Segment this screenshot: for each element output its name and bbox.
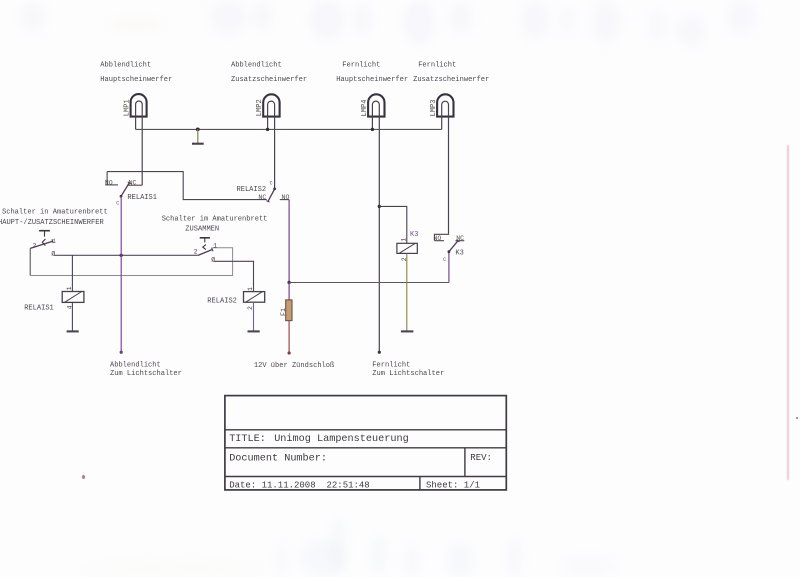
svg-text:Hauptscheinwerfer: Hauptscheinwerfer xyxy=(336,76,408,84)
svg-text:C: C xyxy=(116,201,119,207)
junction LMP4 leg to K3 coil xyxy=(378,205,381,208)
svg-text:Sheet: 1/1: Sheet: 1/1 xyxy=(426,480,480,490)
contact arm RELAIS1 xyxy=(121,183,129,197)
label Fernlicht Zusatzscheinwerfer xyxy=(413,62,489,84)
svg-text:LMP3: LMP3 xyxy=(430,99,438,116)
svg-text:Ø: Ø xyxy=(51,250,55,257)
svg-text:REV:: REV: xyxy=(470,453,492,463)
wire NC stub xyxy=(456,240,465,242)
svg-text:Fernlicht: Fernlicht xyxy=(418,62,456,70)
wire S2 pole to RELAIS2 coil xyxy=(214,261,254,291)
svg-text:RELAIS1: RELAIS1 xyxy=(24,304,54,312)
svg-text:Abblendlicht: Abblendlicht xyxy=(100,62,151,70)
svg-text:2: 2 xyxy=(194,249,198,256)
svg-text:RELAIS2: RELAIS2 xyxy=(207,297,237,305)
svg-text:LMP4: LMP4 xyxy=(361,99,369,116)
wire S1 pole to RELAIS1 coil xyxy=(71,255,73,291)
contact arm RELAIS2 xyxy=(268,189,275,202)
junction C net xyxy=(120,254,123,257)
wire K3 coil to ground xyxy=(406,253,408,331)
switch S2 ZUSAMMEN xyxy=(194,238,218,264)
relay coil RELAIS1 xyxy=(24,286,84,312)
svg-text:Abblendlicht: Abblendlicht xyxy=(231,62,282,70)
node 12V terminal xyxy=(288,351,291,354)
svg-text:LMP1: LMP1 xyxy=(123,99,131,116)
contact arm S2 xyxy=(198,250,212,256)
wire NO stub xyxy=(435,240,445,242)
node Abblendlicht terminal xyxy=(120,351,123,354)
wire S1 pin2 to S2 pin1 (long light line) xyxy=(30,248,232,276)
wire K3 C riser xyxy=(448,252,450,283)
svg-text:Date: 11.11.2008: Date: 11.11.2008 xyxy=(229,480,315,490)
svg-text:K3: K3 xyxy=(455,250,463,258)
wire NO stub xyxy=(280,199,289,201)
junction bus LMP4 xyxy=(371,128,374,131)
svg-text:TITLE:: TITLE: xyxy=(229,434,266,445)
node Fernlicht terminal xyxy=(378,351,381,354)
svg-text:RELAIS1: RELAIS1 xyxy=(127,194,157,202)
junction bus ground tap xyxy=(196,127,200,131)
svg-text:22:51:48: 22:51:48 xyxy=(327,480,370,490)
switch S1 label xyxy=(0,209,108,227)
svg-text:12V über Zündschloß: 12V über Zündschloß xyxy=(254,362,335,370)
wire RELAIS1 coil to ground xyxy=(71,302,73,331)
wire S1 pin2 down xyxy=(29,248,31,275)
label Abblendlicht Zusatzscheinwerfer xyxy=(231,62,307,84)
ground RELAIS2 xyxy=(248,330,260,332)
svg-text:Hauptscheinwerfer: Hauptscheinwerfer xyxy=(100,76,172,84)
junction bus LMP2 xyxy=(266,128,269,131)
svg-text:F1: F1 xyxy=(280,308,287,316)
title block frame xyxy=(225,396,506,490)
wire S1 pole line y255 xyxy=(54,254,198,256)
svg-text:Fernlicht: Fernlicht xyxy=(372,361,410,369)
svg-text:Zum Lichtschalter: Zum Lichtschalter xyxy=(110,370,182,378)
lamp LMP4 xyxy=(361,94,385,352)
wire RELAIS1 C vertical (purple) xyxy=(120,196,122,352)
relay coil RELAIS2 xyxy=(207,287,264,310)
label Fernlicht Zum Lichtschalter xyxy=(372,361,444,378)
svg-text:1: 1 xyxy=(247,287,254,291)
lamp LMP1 xyxy=(123,94,146,185)
relay coil K3 xyxy=(397,231,419,261)
fuse F1 xyxy=(280,300,292,321)
wire RELAIS1 NO to RELAIS2 NC xyxy=(107,172,267,200)
svg-text:Zusatzscheinwerfer: Zusatzscheinwerfer xyxy=(413,76,489,84)
svg-text:1: 1 xyxy=(66,286,73,290)
ground K3 xyxy=(401,330,414,332)
svg-text:Fernlicht: Fernlicht xyxy=(342,62,380,70)
label Fernlicht Hauptscheinwerfer xyxy=(336,62,408,84)
svg-text:Abblendlicht: Abblendlicht xyxy=(110,361,161,369)
svg-text:Schalter im Amaturenbrett: Schalter im Amaturenbrett xyxy=(162,216,268,224)
svg-text:ZUSAMMEN: ZUSAMMEN xyxy=(185,225,219,233)
svg-text:Unimog Lampensteuerung: Unimog Lampensteuerung xyxy=(274,433,409,445)
wire RELAIS2 coil to ground xyxy=(253,302,255,331)
wire NC stub xyxy=(128,184,142,186)
wire fuse node to K3 contact C xyxy=(289,282,449,284)
svg-text:Document Number:: Document Number: xyxy=(229,452,327,464)
contact arm S1 xyxy=(30,241,52,248)
wire fuse node to F1 xyxy=(288,283,290,301)
svg-text:K3: K3 xyxy=(410,231,418,239)
ground GND top xyxy=(192,129,204,143)
svg-text:Schalter in Amaturenbrett: Schalter in Amaturenbrett xyxy=(2,209,108,217)
wire lamp bus xyxy=(136,128,442,130)
switch S2 label xyxy=(162,216,268,234)
svg-text:Zum Lichtschalter: Zum Lichtschalter xyxy=(372,370,444,378)
svg-text:NC: NC xyxy=(258,194,266,201)
wire NO riser xyxy=(106,172,108,185)
ground RELAIS1 xyxy=(67,330,79,332)
svg-text:1: 1 xyxy=(401,238,408,242)
svg-text:C: C xyxy=(443,257,446,263)
wire RELAIS2 NO down to fuse node xyxy=(288,200,290,283)
relay contact RELAIS2 xyxy=(237,181,290,203)
svg-text:C: C xyxy=(270,181,273,187)
svg-text:Ø: Ø xyxy=(211,256,215,263)
relay contact K3 xyxy=(433,235,464,263)
label Abblendlicht Hauptscheinwerfer xyxy=(100,62,172,84)
svg-text:HAUPT-/ZUSATZSCHEINWERFER: HAUPT-/ZUSATZSCHEINWERFER xyxy=(0,219,104,227)
lamp LMP2 xyxy=(256,94,279,188)
svg-text:Zusatzscheinwerfer: Zusatzscheinwerfer xyxy=(231,76,307,84)
svg-text:LMP2: LMP2 xyxy=(256,99,264,116)
switch S1 HAUPT-/ZUSATZSCHEINWERFER xyxy=(30,231,56,258)
wire NO stub xyxy=(105,184,118,186)
relay contact RELAIS1 xyxy=(105,172,157,207)
svg-text:1: 1 xyxy=(213,243,217,250)
wire LMP4 node to K3 coil xyxy=(379,206,407,243)
label Abblendlicht Zum Lichtschalter xyxy=(110,361,182,378)
lamp LMP3 xyxy=(430,94,454,240)
wire F1 to 12V terminal xyxy=(288,321,290,353)
contact arm K3 xyxy=(449,241,458,252)
junction fuse node xyxy=(287,281,290,284)
